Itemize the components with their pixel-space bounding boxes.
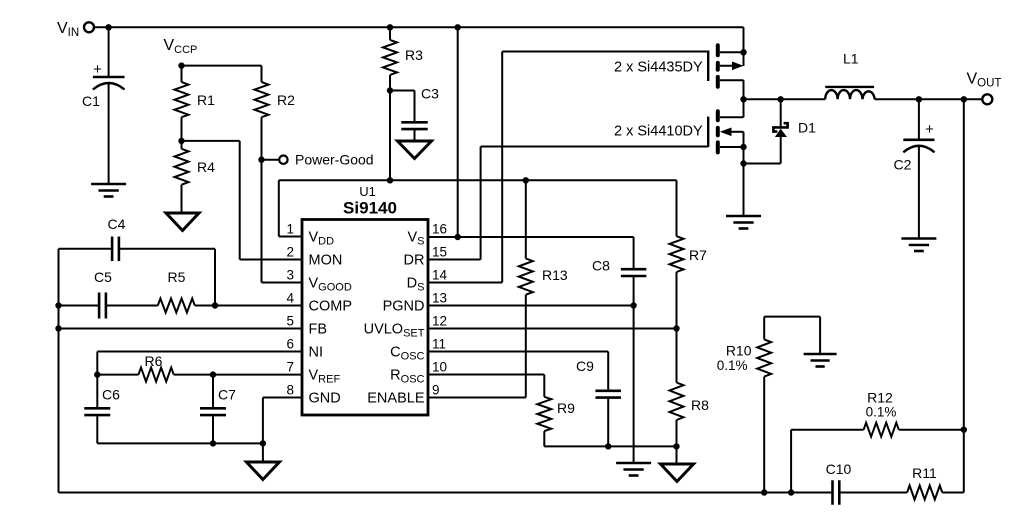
diode D1 schottky — [773, 99, 816, 163]
svg-text:C6: C6 — [102, 387, 120, 403]
wire PGND pin 13 row — [428, 305, 634, 307]
ground under C8 — [616, 463, 651, 476]
svg-text:FB: FB — [309, 322, 328, 338]
svg-text:R6: R6 — [145, 353, 163, 369]
svg-text:Power-Good: Power-Good — [295, 152, 374, 168]
pin label UVLOSET — [364, 322, 425, 340]
inductor L1 — [825, 51, 875, 100]
svg-text:R3: R3 — [405, 47, 423, 63]
svg-text:16: 16 — [432, 222, 447, 237]
junction R10 bottom rail — [761, 489, 767, 495]
svg-text:9: 9 — [432, 383, 440, 398]
svg-text:0.1%: 0.1% — [717, 358, 748, 373]
pin number 2 — [286, 245, 294, 260]
svg-text:0.1%: 0.1% — [866, 405, 897, 420]
pin label VS — [407, 230, 424, 248]
wire FB pin 5 row — [59, 328, 303, 330]
transistor Q2 lower n-MOSFET Si4410DY — [708, 99, 743, 216]
wire DS pin 14 to upper FET gate — [428, 52, 708, 283]
wire VDD line down to R7 — [676, 180, 678, 236]
pin label GND — [309, 391, 341, 407]
capacitor C9 — [576, 358, 621, 398]
wire GND pin 8 — [263, 398, 302, 463]
pin label VDD — [309, 230, 335, 248]
svg-text:R11: R11 — [912, 465, 937, 481]
junction UVLOSET at R7/R8 — [673, 325, 679, 331]
wire R13 top to VDD line — [525, 180, 527, 258]
svg-text:2 x Si4435DY: 2 x Si4435DY — [614, 60, 703, 76]
wire bottom rail — [59, 492, 833, 494]
junction C7 bottom — [210, 440, 216, 446]
wire VS pin 16 to top rail — [457, 27, 459, 237]
capacitor C7 — [200, 375, 236, 416]
wire R1 to R4 — [181, 117, 183, 149]
junction COMP/C4 left — [55, 302, 61, 308]
junction VDD line at R3/C3 branch — [387, 177, 393, 183]
wire COSC pin 11 to C9 — [428, 352, 608, 391]
junction GND pin8 bottom — [260, 440, 266, 446]
junction R6 right C7 top — [210, 371, 216, 377]
resistor R1 — [175, 66, 216, 118]
wire UVLOSET pin 12 row — [428, 328, 677, 330]
wire R12 branch vertical — [790, 430, 792, 493]
pin number 11 — [432, 337, 446, 352]
svg-text:R1: R1 — [197, 92, 215, 108]
capacitor C1 — [82, 27, 125, 184]
wire VDD pin 1 to rail y180 — [279, 180, 677, 236]
wire C9 bottom — [607, 398, 609, 447]
wire R1/R4 node to pin 2 MON — [182, 141, 303, 260]
svg-text:R12: R12 — [867, 390, 893, 406]
pin number 12 — [432, 314, 447, 329]
wire VREF row — [97, 374, 302, 376]
ground under FETs — [726, 216, 761, 229]
wire ROSC pin 10 to R9 — [428, 375, 544, 397]
pin label ENABLE — [367, 391, 425, 407]
pin label DR — [404, 253, 425, 269]
junction output feedback tap — [961, 96, 967, 102]
svg-text:5: 5 — [286, 314, 294, 329]
pin label VREF — [309, 368, 341, 386]
svg-text:2 x Si4410DY: 2 x Si4410DY — [614, 124, 703, 140]
resistor R4 — [175, 149, 216, 185]
pin number 7 — [286, 360, 294, 375]
wire VCCP to R2 — [182, 66, 262, 83]
wire ENABLE pin 9 to R13 — [428, 295, 526, 398]
pin number 14 — [432, 268, 448, 283]
ground under C1 — [91, 184, 126, 197]
resistor R3 — [383, 27, 423, 75]
junction VS top rail — [455, 24, 461, 30]
junction R3 tap on VIN rail — [387, 24, 393, 30]
junction R12 branch bottom — [788, 489, 794, 495]
svg-text:DR: DR — [404, 253, 425, 269]
junction lower FET source — [740, 144, 746, 150]
wire R9 bottom row — [544, 431, 676, 446]
wire output right rail — [963, 99, 965, 492]
svg-text:PGND: PGND — [383, 299, 425, 315]
pin number 4 — [286, 291, 294, 306]
svg-text:C4: C4 — [108, 216, 126, 232]
resistor R10 — [717, 317, 771, 493]
svg-text:14: 14 — [432, 268, 448, 283]
wire R2 down to pin 3 — [262, 117, 303, 282]
wire R3 to VDD line — [389, 75, 391, 180]
svg-text:COMP: COMP — [309, 299, 353, 315]
junction R6 left C6 top — [94, 371, 100, 377]
pin label FB — [309, 322, 328, 338]
resistor R6 — [139, 353, 174, 382]
ground under C3 — [398, 141, 432, 159]
junction Power-Good tap — [258, 157, 264, 163]
capacitor C6 — [84, 375, 120, 416]
wire C8 bottom to ground — [633, 276, 635, 463]
svg-text:ENABLE: ENABLE — [367, 391, 425, 407]
node VOUT terminal — [967, 71, 1002, 105]
wire L1 to VOUT — [875, 98, 983, 100]
svg-text:15: 15 — [432, 245, 447, 260]
junction upper FET drain — [740, 49, 746, 55]
capacitor C10 — [826, 461, 852, 505]
junction R8 bottom — [673, 443, 679, 449]
pin number 8 — [286, 383, 294, 398]
resistor R12 — [864, 390, 899, 437]
wire C3 to ground — [414, 129, 416, 141]
pin label COMP — [309, 299, 353, 315]
wire R12 to right rail — [899, 429, 964, 431]
resistor R5 — [158, 269, 195, 313]
transistor Q1 2 x Si4435DY label — [614, 60, 703, 76]
junction R12 right rail — [961, 427, 967, 433]
pin number 10 — [432, 360, 447, 375]
junction C9 bottom — [605, 443, 611, 449]
pin number 13 — [432, 291, 447, 306]
svg-text:11: 11 — [432, 337, 446, 352]
wire phase to L1 — [744, 98, 826, 100]
wire R7 to R8 — [676, 272, 678, 383]
wire R8 to ground — [676, 420, 678, 464]
resistor R9 — [537, 397, 575, 431]
ground under pin 8 GND — [246, 462, 279, 480]
pin label DS — [407, 276, 425, 294]
ground under R8 — [661, 464, 694, 482]
node VIN terminal — [57, 20, 94, 39]
wire NI pin 6 — [97, 352, 302, 375]
svg-text:13: 13 — [432, 291, 447, 306]
wire R4 to ground — [181, 185, 183, 213]
svg-text:C8: C8 — [592, 258, 610, 274]
pin number 9 — [432, 383, 440, 398]
junction D1 return — [740, 160, 746, 166]
svg-text:C9: C9 — [576, 358, 594, 374]
svg-text:R7: R7 — [689, 247, 707, 263]
ground under R4 — [166, 213, 199, 231]
svg-text:8: 8 — [286, 383, 294, 398]
pin number 3 — [286, 268, 294, 283]
svg-text:C5: C5 — [94, 269, 112, 285]
resistor R13 — [519, 259, 568, 295]
svg-text:1: 1 — [286, 222, 294, 237]
wire DR pin 15 to lower FET gate — [428, 147, 708, 260]
svg-text:C1: C1 — [82, 93, 100, 109]
op-amp U1 Si9140 IC box — [302, 184, 428, 415]
pin label PGND — [383, 299, 425, 315]
svg-text:7: 7 — [286, 360, 294, 375]
wire D1 return — [744, 163, 781, 165]
svg-text:R9: R9 — [557, 400, 575, 416]
wire C6/C7 ground row — [97, 415, 263, 443]
svg-text:C2: C2 — [894, 157, 912, 173]
pin label ROSC — [390, 368, 424, 386]
svg-text:2: 2 — [286, 245, 294, 260]
resistor R11 — [907, 465, 942, 500]
svg-text:R10: R10 — [726, 343, 752, 359]
svg-text:R8: R8 — [691, 397, 709, 413]
svg-text:R13: R13 — [542, 267, 568, 283]
junction C2 tap — [916, 96, 922, 102]
svg-text:3: 3 — [286, 268, 294, 283]
svg-text:U1: U1 — [359, 184, 376, 199]
junction COMP/C4 right — [212, 302, 218, 308]
capacitor C2 — [894, 99, 935, 238]
node Power-Good — [262, 152, 374, 168]
pin number 1 — [286, 222, 294, 237]
svg-text:+: + — [925, 121, 934, 138]
pin number 16 — [432, 222, 447, 237]
svg-text:L1: L1 — [843, 51, 859, 67]
svg-text:+: + — [93, 61, 102, 78]
svg-text:6: 6 — [286, 337, 294, 352]
svg-text:MON: MON — [309, 253, 343, 269]
junction VDD line at R13 branch — [523, 177, 529, 183]
pin number 5 — [286, 314, 294, 329]
wire drain vertical to body — [743, 52, 745, 66]
svg-text:4: 4 — [286, 291, 294, 306]
transistor Q1 upper p-MOSFET Si4435DY — [708, 45, 743, 99]
pin label NI — [309, 345, 324, 361]
wire left vertical FB rail — [58, 249, 60, 493]
junction C8/PGND — [630, 302, 636, 308]
capacitor C3 — [390, 86, 439, 130]
junction FB left — [55, 325, 61, 331]
capacitor C4 — [59, 216, 216, 306]
svg-text:10: 10 — [432, 360, 447, 375]
wire R12 row left — [791, 429, 864, 431]
pin number 15 — [432, 245, 447, 260]
wire R11 to right rail — [942, 492, 964, 494]
resistor R7 — [670, 236, 708, 272]
svg-text:C7: C7 — [218, 387, 236, 403]
svg-text:R2: R2 — [277, 92, 295, 108]
junction C1 tap on VIN rail — [105, 24, 111, 30]
transistor Q2 2 x Si4410DY label — [614, 124, 703, 140]
svg-text:R5: R5 — [168, 269, 186, 285]
pin label VGOOD — [309, 276, 352, 294]
svg-text:GND: GND — [309, 391, 341, 407]
junction R3/C3 node — [387, 87, 393, 93]
svg-text:NI: NI — [309, 345, 324, 361]
svg-text:C10: C10 — [826, 461, 852, 477]
capacitor C5 — [94, 269, 112, 319]
wire top rail VIN to upper FET drain — [94, 27, 743, 66]
junction phase node — [740, 96, 746, 102]
capacitor C8 — [592, 258, 646, 277]
wire VS pin 16 row — [428, 237, 634, 269]
wire COMP row — [59, 305, 303, 307]
resistor R8 — [670, 383, 710, 421]
wire C10 to R11 — [839, 492, 907, 494]
svg-text:R4: R4 — [197, 159, 215, 175]
pin number 6 — [286, 337, 294, 352]
node VCCP — [164, 37, 198, 69]
pin label COSC — [390, 345, 424, 363]
junction D1 anode tap — [778, 96, 784, 102]
svg-text:C3: C3 — [421, 86, 439, 102]
ground near R10 — [804, 354, 837, 367]
pin label MON — [309, 253, 343, 269]
junction R1/R4 node — [178, 138, 184, 144]
resistor R2 — [255, 82, 296, 117]
wire R10 top to ground — [764, 317, 820, 354]
svg-text:12: 12 — [432, 314, 447, 329]
junction VS row — [455, 234, 461, 240]
ground under C2 — [901, 239, 936, 252]
svg-text:Si9140: Si9140 — [343, 199, 397, 218]
svg-text:D1: D1 — [798, 120, 816, 136]
